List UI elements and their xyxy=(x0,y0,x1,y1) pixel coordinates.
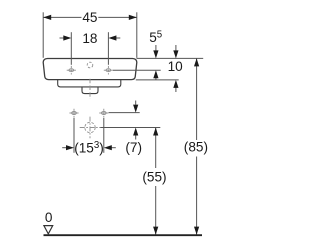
drain level extended right xyxy=(100,127,160,129)
right fixing hole (hidden) xyxy=(99,109,108,118)
washbasin body (front view) xyxy=(43,59,137,80)
basin top edge extended right xyxy=(137,57,204,59)
dim 18: outside arrows xyxy=(60,37,65,39)
dim 45: extension lines xyxy=(42,12,44,58)
svg-text:0: 0 xyxy=(45,210,53,225)
dim 45: dimension line with arrows xyxy=(43,16,81,18)
right tap hole xyxy=(104,66,113,75)
tap hole level extended right xyxy=(113,69,161,71)
washbasin apron/skirt xyxy=(58,80,121,87)
left fixing hole (hidden) xyxy=(69,109,78,118)
dim 18: extension lines xyxy=(70,32,72,65)
svg-text:18: 18 xyxy=(82,31,97,46)
floor/ground line xyxy=(44,234,203,236)
left tap hole xyxy=(67,66,76,75)
svg-text:(153): (153) xyxy=(74,140,104,156)
svg-text:10: 10 xyxy=(168,59,184,74)
dim (15.3): outside arrows xyxy=(62,147,66,149)
datum level triangle xyxy=(44,226,53,234)
svg-text:(7): (7) xyxy=(125,140,142,155)
drain outlet (dashed circle with crosshair) xyxy=(85,122,95,132)
basin bottom rim level extended right xyxy=(136,79,179,81)
vertical centerline xyxy=(89,79,91,99)
dim 10: arrows xyxy=(175,45,177,51)
svg-text:45: 45 xyxy=(82,10,97,25)
dim 5.5: arrows xyxy=(155,45,157,51)
overflow hole (dashed circle) xyxy=(87,62,93,68)
svg-text:(55): (55) xyxy=(142,169,166,184)
trap cover xyxy=(82,87,98,94)
svg-text:(85): (85) xyxy=(184,140,208,155)
dim (15.3): extension lines xyxy=(73,118,75,153)
dim (7): arrows xyxy=(135,101,137,105)
dim (85): dimension line xyxy=(196,58,198,140)
fixing hole level extended right xyxy=(109,112,140,114)
dim (55): dimension line xyxy=(155,128,157,169)
